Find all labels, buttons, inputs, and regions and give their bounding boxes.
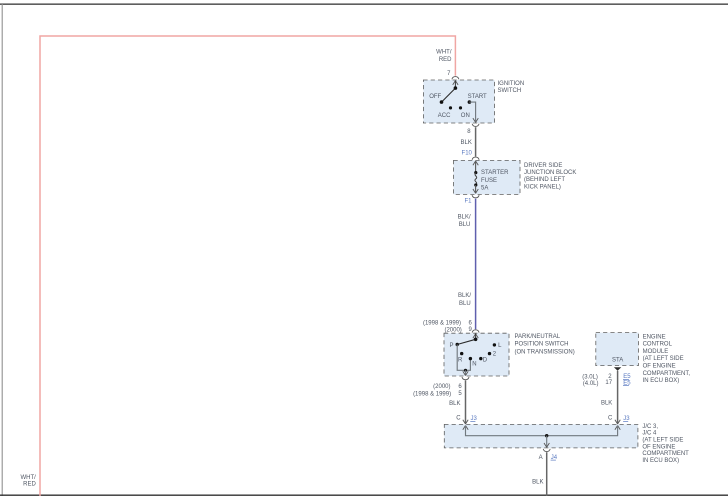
contact P dot (456, 343, 459, 346)
label (2000) pin 6 (433, 384, 462, 390)
label IGNITION SWITCH (498, 81, 525, 94)
svg-text:J/C 3,: J/C 3, (642, 424, 658, 430)
wire WHT/RED (40, 36, 455, 496)
svg-text:BLU: BLU (459, 222, 471, 228)
label PARK/NEUTRAL POSITION SWITCH (515, 334, 575, 356)
switch arm pivot to P (457, 339, 475, 344)
connector pin 8 arrow inside (473, 118, 478, 122)
contact R dot (460, 352, 463, 355)
svg-text:ON: ON (461, 113, 470, 119)
pivot contact dot (454, 86, 458, 90)
svg-text:IN ECU BOX): IN ECU BOX) (643, 378, 680, 384)
svg-text:D: D (483, 358, 488, 364)
svg-text:BLK: BLK (601, 400, 612, 406)
START contact dot (468, 100, 472, 104)
svg-text:N: N (472, 362, 476, 368)
internal bus wire (466, 426, 618, 436)
wire BLK ignition to junction block (475, 127, 477, 156)
connector cup below park/neutral box (462, 377, 469, 380)
engine control module box (596, 333, 639, 366)
wire BLK ECM to J/C (617, 371, 619, 423)
junction dot exit (464, 369, 467, 372)
svg-text:BLK/: BLK/ (458, 214, 471, 220)
pin J4 (551, 455, 558, 461)
svg-text:IN ECU BOX): IN ECU BOX) (642, 458, 679, 464)
svg-text:WHT/: WHT/ (436, 49, 452, 55)
svg-text:(4.0L): (4.0L) (583, 381, 599, 387)
label (1998 & 1999) pin 5 (413, 391, 462, 397)
svg-text:BLK/: BLK/ (458, 293, 471, 299)
svg-text:PARK/NEUTRAL: PARK/NEUTRAL (515, 334, 561, 340)
svg-text:J/C 4: J/C 4 (642, 431, 657, 437)
svg-text:OF ENGINE: OF ENGINE (643, 364, 676, 370)
svg-text:WHT/: WHT/ (20, 475, 36, 481)
svg-text:17: 17 (605, 380, 612, 386)
J/C 3, J/C 4 box (444, 424, 638, 448)
connector pin 8 cup below box (472, 124, 479, 127)
svg-text:(BEHIND LEFT: (BEHIND LEFT (524, 177, 565, 183)
label (1998 & 1999) pin 6 (423, 320, 472, 326)
pin 17 (4.0L) E5 (583, 380, 631, 387)
svg-text:R: R (458, 358, 463, 364)
park/neutral switch internals (449, 334, 502, 376)
svg-text:F1: F1 (464, 198, 472, 204)
connector arrow above J/C right entry (615, 420, 620, 424)
wire BLK J/C to bottom (546, 452, 548, 496)
driver side junction block box (454, 160, 521, 194)
connector F1 cup below box (472, 195, 479, 198)
svg-text:RED: RED (439, 57, 452, 63)
ON contact dot (459, 106, 462, 109)
svg-text:P: P (449, 343, 453, 349)
label WHT/RED bottom left (20, 475, 36, 488)
contact L dot (493, 343, 496, 346)
starter fuse 5A (473, 161, 509, 193)
svg-text:C: C (608, 416, 613, 422)
svg-text:ENGINE: ENGINE (643, 334, 666, 340)
svg-text:BLK: BLK (449, 401, 460, 407)
connector arrow above J/C left entry (463, 420, 468, 424)
ignition switch box (423, 80, 494, 123)
label BLK/BLU lower (458, 293, 471, 307)
OFF contact dot (440, 100, 444, 104)
svg-text:START: START (468, 94, 487, 100)
wire entry stub to pivot (454, 81, 456, 89)
connector dome above park/neutral box (472, 330, 479, 333)
junction dot (545, 434, 548, 437)
ACC contact dot (449, 106, 452, 109)
svg-text:C: C (456, 415, 461, 421)
wire BLK/BLU junction block to park/neutral switch (475, 199, 477, 330)
svg-text:DRIVER SIDE: DRIVER SIDE (524, 163, 562, 169)
connector F10 dome above box (472, 157, 479, 160)
svg-text:COMPARTMENT,: COMPARTMENT, (643, 371, 691, 377)
svg-text:STA: STA (612, 358, 623, 364)
ECM connector triangle (614, 367, 621, 371)
connector cup below J/C (543, 449, 550, 452)
svg-text:(1998 & 1999): (1998 & 1999) (413, 391, 451, 397)
svg-text:RED: RED (23, 481, 36, 487)
label J/C 3, J/C 4 (642, 424, 689, 464)
pin J3 right (623, 416, 630, 422)
label (2000) pin 9 (444, 327, 472, 334)
svg-text:KICK PANEL): KICK PANEL) (524, 184, 561, 190)
switch arm OFF-pivot (442, 88, 456, 102)
exit wire down (465, 370, 467, 375)
park/neutral position switch box (444, 333, 509, 376)
svg-text:F10: F10 (462, 151, 473, 157)
svg-text:(AT LEFT SIDE: (AT LEFT SIDE (642, 438, 683, 444)
svg-text:(2000): (2000) (433, 384, 450, 390)
svg-text:(3.0L): (3.0L) (582, 375, 598, 381)
svg-text:A: A (539, 455, 543, 461)
exit wire down (546, 436, 548, 447)
svg-text:STARTER: STARTER (481, 170, 509, 176)
svg-text:ACC: ACC (438, 113, 451, 119)
label ENGINE CONTROL MODULE (643, 334, 691, 384)
svg-text:OF ENGINE: OF ENGINE (642, 444, 675, 450)
wire P to exit (457, 345, 470, 371)
svg-text:(ON TRANSMISSION): (ON TRANSMISSION) (515, 349, 575, 355)
svg-text:OFF: OFF (429, 94, 441, 100)
svg-text:BLK: BLK (532, 480, 543, 486)
label DRIVER SIDE JUNCTION BLOCK (524, 163, 576, 191)
svg-text:JUNCTION BLOCK: JUNCTION BLOCK (524, 170, 576, 176)
ignition switch internals (429, 81, 487, 123)
svg-text:MODULE: MODULE (643, 349, 669, 355)
contact D dot (479, 357, 482, 360)
label WHT/RED top (436, 49, 452, 63)
connector pin 7 at top border (452, 77, 459, 85)
svg-text:FUSE: FUSE (481, 178, 497, 184)
contact 2 dot (488, 352, 491, 355)
svg-text:COMPARTMENT: COMPARTMENT (642, 451, 689, 457)
svg-text:POSITION SWITCH: POSITION SWITCH (515, 342, 569, 348)
svg-text:CONTROL: CONTROL (643, 342, 673, 348)
svg-text:SWITCH: SWITCH (498, 88, 522, 94)
contact N dot (469, 357, 472, 360)
svg-text:(1998 & 1999): (1998 & 1999) (423, 321, 461, 327)
label BLK/BLU upper (458, 214, 471, 228)
pin 2 (3.0L) E5 (582, 374, 631, 381)
wire START to pin 8 (469, 102, 475, 121)
svg-text:BLU: BLU (459, 301, 471, 307)
pin J3 left (470, 416, 477, 422)
J/C internals (463, 426, 621, 448)
wire BLK park/neutral to J/C (465, 380, 467, 423)
svg-text:5A: 5A (481, 186, 488, 192)
svg-text:(AT LEFT SIDE: (AT LEFT SIDE (643, 356, 684, 362)
svg-text:IGNITION: IGNITION (498, 81, 525, 87)
svg-text:BLK: BLK (461, 140, 472, 146)
